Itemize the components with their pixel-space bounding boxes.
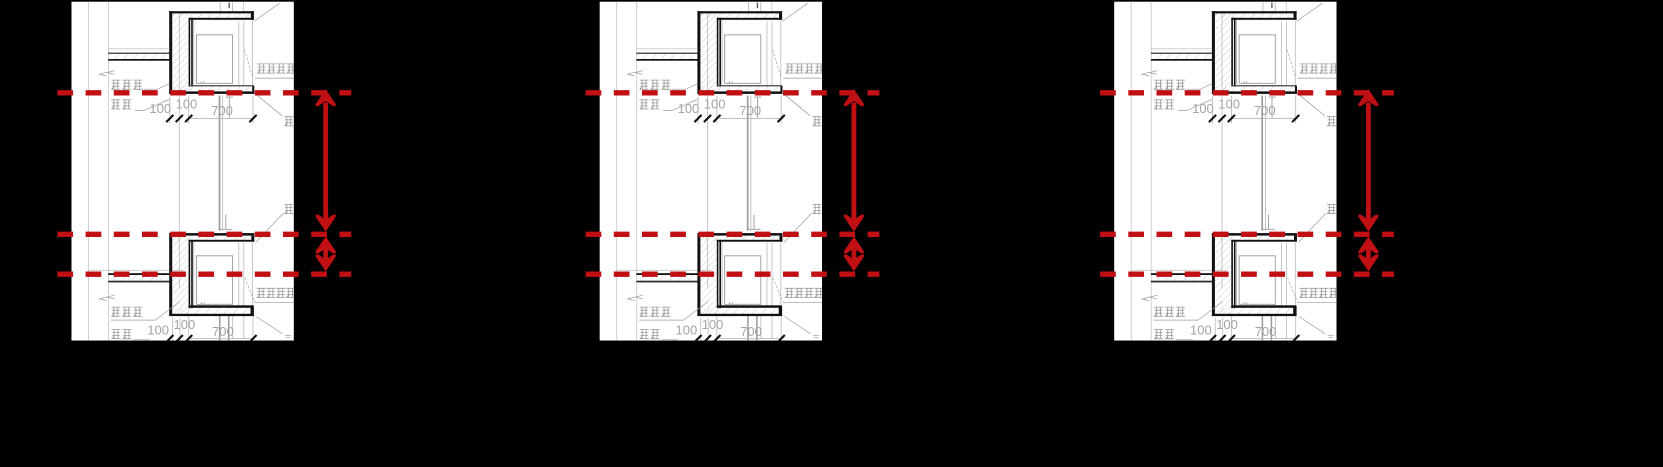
panel 2 artwork	[600, 2, 824, 343]
red overlay panel 3	[1100, 89, 1394, 274]
panel 3 artwork	[1114, 2, 1338, 343]
red overlay panel 2	[586, 89, 880, 274]
panel 1 artwork	[71, 2, 295, 343]
red overlay panel 1	[57, 89, 351, 274]
